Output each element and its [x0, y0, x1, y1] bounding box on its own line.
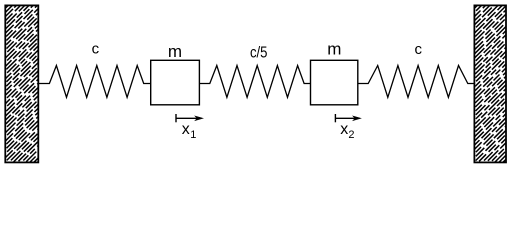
- svg-text:c: c: [92, 41, 100, 58]
- spring c/5 (middle): [199, 66, 310, 98]
- svg-text:x: x: [340, 121, 348, 138]
- svg-text:2: 2: [348, 129, 354, 141]
- label x1: [182, 121, 197, 141]
- spring c (left): [39, 66, 150, 98]
- arrow x1 (displacement of mass 1): [176, 114, 203, 122]
- svg-text:x: x: [182, 121, 190, 138]
- spring c (right): [358, 66, 474, 98]
- svg-text:m: m: [168, 42, 182, 61]
- svg-text:1: 1: [190, 129, 196, 141]
- arrow x2 (displacement of mass 2): [335, 114, 360, 122]
- wall right: [474, 5, 506, 162]
- mass m1: [151, 60, 200, 105]
- wall left: [5, 5, 38, 162]
- svg-text:c/5: c/5: [250, 45, 268, 62]
- mass m2: [311, 60, 358, 105]
- svg-text:c: c: [414, 41, 422, 58]
- svg-text:m: m: [327, 39, 341, 58]
- label x2: [340, 121, 354, 141]
